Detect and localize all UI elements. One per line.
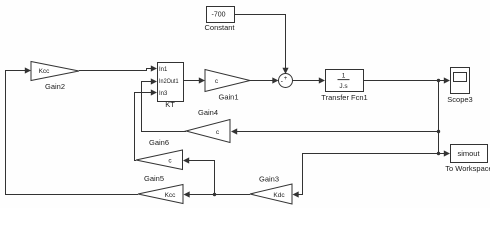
wire Gain6 output to KT port In3 (135, 89, 158, 160)
svg-text:Kdc: Kdc (273, 192, 285, 199)
wire branch down to Gain3 input (293, 154, 439, 198)
svg-text:KT: KT (165, 100, 175, 109)
wire Transfer Fcn1 output to Scope3 (363, 77, 450, 83)
wire branch up to Gain6 input (183, 157, 215, 194)
svg-text:Constant: Constant (204, 23, 235, 32)
junction node at Gain4 branch (437, 130, 440, 133)
wire KT Out1 to Gain1 input (183, 77, 205, 83)
svg-text:J.s: J.s (339, 83, 348, 90)
wire Sum1 output to Transfer Fcn1 input (293, 77, 326, 83)
wire Gain4 output to KT port In2 (142, 78, 187, 131)
svg-text:+: + (284, 76, 288, 82)
gain Gain2 (Kcc) (31, 62, 79, 92)
gain Gain1 (c) (205, 70, 250, 102)
svg-text:In2Out1: In2Out1 (159, 79, 179, 85)
wire Gain2 output to KT port In1 (79, 65, 157, 71)
svg-text:-700: -700 (211, 12, 225, 19)
svg-text:In3: In3 (159, 91, 168, 97)
gain Gain4 (c) feedback (186, 108, 230, 143)
svg-text:Gain3: Gain3 (259, 175, 279, 184)
wire branch to To Workspace block (439, 150, 451, 156)
svg-text:In1: In1 (159, 67, 168, 73)
wire feedback riser down from scope wire (438, 81, 440, 154)
wire Constant to Sum1 top input (235, 15, 289, 75)
svg-text:To Workspace: To Workspace (445, 164, 490, 173)
wire Gain1 output to Sum1 left input (250, 77, 279, 83)
svg-text:Gain5: Gain5 (144, 174, 164, 183)
svg-text:simout: simout (457, 149, 480, 158)
gain Gain5 (Kcc) (138, 174, 183, 204)
junction node at Gain6 branch (213, 193, 216, 196)
svg-text:Gain2: Gain2 (45, 82, 65, 91)
svg-text:Kcc: Kcc (165, 192, 177, 199)
svg-text:Transfer Fcn1: Transfer Fcn1 (321, 93, 367, 102)
transfer function block Transfer Fcn1 (1/J.s) (321, 70, 367, 103)
wire Gain3 output to Gain5 input (184, 191, 251, 197)
svg-text:1: 1 (342, 73, 346, 80)
gain Gain3 (Kdc) (250, 175, 292, 205)
junction node on scope wire (437, 79, 440, 82)
svg-text:Kcc: Kcc (39, 68, 51, 75)
wire Gain5 output to Gain2 input (left feedback riser) (6, 67, 139, 194)
gain Gain6 (c) feedback (136, 138, 183, 170)
wire branch to Gain4 input (231, 128, 439, 134)
scope block Scope3 (447, 68, 472, 105)
svg-text:Gain6: Gain6 (149, 138, 169, 147)
junction node at simout branch (437, 152, 440, 155)
constant block Constant (-700) (204, 7, 235, 33)
workspace block simout (445, 145, 490, 174)
svg-text:Gain1: Gain1 (218, 93, 238, 102)
subsystem KT (158, 63, 184, 110)
svg-text:Gain4: Gain4 (198, 108, 218, 117)
sum block Sum1 (+ -) (279, 74, 293, 88)
svg-text:Scope3: Scope3 (447, 95, 472, 104)
